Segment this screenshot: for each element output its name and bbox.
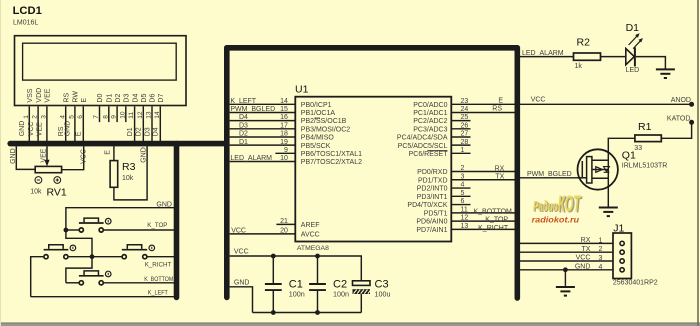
wire K_LEFT to left bus <box>31 296 175 298</box>
wire R1 to Q1 drain <box>608 138 635 150</box>
svg-text:PD3/INT1: PD3/INT1 <box>417 194 448 201</box>
U1 pin 20 (AVCC) wire <box>230 233 296 235</box>
svg-text:K_LEFT: K_LEFT <box>230 98 256 105</box>
LCD pin 10 D3 wire <box>125 106 127 122</box>
svg-text:VSS: VSS <box>27 88 34 102</box>
svg-text:D2: D2 <box>115 94 122 103</box>
svg-text:12: 12 <box>137 111 144 119</box>
svg-text:24: 24 <box>461 106 469 113</box>
svg-text:TX: TX <box>581 246 590 253</box>
svg-text:5: 5 <box>69 115 76 119</box>
capacitor C1 plates <box>265 283 282 285</box>
top horizontal bus bar <box>227 45 518 51</box>
svg-text:D4: D4 <box>153 127 160 136</box>
svg-text:D1: D1 <box>127 127 134 136</box>
U1 pin 2 (PD0/RXD) wire <box>451 171 514 173</box>
LCD pin 6 E wire <box>82 106 84 141</box>
svg-text:PD4/T0/XCK: PD4/T0/XCK <box>407 202 447 209</box>
wire from K_TOP junction down to middle row <box>66 230 92 257</box>
svg-text:2: 2 <box>461 165 465 172</box>
svg-text:U1: U1 <box>295 84 309 96</box>
wire R2 to D1 anode <box>601 56 626 58</box>
svg-text:28: 28 <box>461 139 469 146</box>
wire VCC from bus to J1 pin 3 <box>520 260 613 262</box>
svg-text:K_TOP: K_TOP <box>147 222 167 229</box>
svg-text:VCC: VCC <box>576 255 591 262</box>
svg-text:2: 2 <box>32 115 39 119</box>
ground (Q1 source) <box>599 207 618 209</box>
LCD pin 1 VSS wire <box>28 106 30 141</box>
svg-text:PD6/AIN0: PD6/AIN0 <box>416 219 447 226</box>
microcontroller U1 body <box>295 97 451 242</box>
push button K_RICHT: actuator bar <box>122 249 147 251</box>
wire K_TOP to left bus <box>104 229 175 231</box>
LCD pin 9 D2 wire <box>116 106 118 122</box>
svg-text:RV1: RV1 <box>47 186 67 198</box>
RV1 minus terminal mark <box>35 177 42 184</box>
wire bottom ground rail <box>253 312 362 314</box>
LCD display LCD1 <box>15 36 187 106</box>
svg-text:17: 17 <box>280 122 288 129</box>
LCD pin 12 D5 wire <box>142 106 144 141</box>
resistor R3 body <box>110 161 118 188</box>
capacitor C3 top plate <box>353 281 371 286</box>
wire GND to RV1 left terminal <box>16 146 35 169</box>
svg-text:10: 10 <box>119 111 126 119</box>
svg-text:9: 9 <box>284 147 288 154</box>
U1 pin 23 (PC0/ADC0) wire <box>451 103 514 105</box>
junction node at K_TOP button <box>64 228 69 233</box>
svg-text:RW: RW <box>73 91 80 103</box>
svg-text:VEE: VEE <box>40 148 47 162</box>
svg-text:AVCC: AVCC <box>301 232 320 239</box>
svg-text:PWM_BGLED: PWM_BGLED <box>230 106 275 113</box>
wire Q1 drain-source vertical <box>607 150 609 207</box>
svg-text:K_LEFT: K_LEFT <box>148 289 168 296</box>
svg-text:PD0/RXD: PD0/RXD <box>417 169 447 176</box>
wire VCC rail to C3 <box>230 256 362 281</box>
LED D1 cathode bar <box>634 47 636 66</box>
connector J1 body <box>613 233 631 279</box>
svg-text:PD2/INT0: PD2/INT0 <box>417 186 448 193</box>
svg-text:PD1/TXD: PD1/TXD <box>418 177 448 184</box>
U1 pin 10 (PB7/TOSC2/XTAL2) wire <box>230 160 296 162</box>
U1 pin 19 (PB5/SCK) wire <box>230 144 296 146</box>
svg-text:25: 25 <box>461 114 469 121</box>
middle vertical bus bar <box>224 48 230 298</box>
svg-text:PC5/ADC5/SCL: PC5/ADC5/SCL <box>398 143 448 150</box>
push button K_TOP: operation mark <box>105 218 111 224</box>
svg-text:E: E <box>105 150 112 155</box>
LCD pin 4 RS wire <box>65 106 67 141</box>
svg-text:K_RICHT: K_RICHT <box>145 262 172 269</box>
wire KATOD to R1 <box>661 122 691 138</box>
svg-text:PB0/ICP1: PB0/ICP1 <box>301 102 332 109</box>
LED D1 light arrow 2 <box>633 40 641 48</box>
svg-text:D0: D0 <box>97 94 104 103</box>
LED D1 light arrow 1 <box>629 35 638 45</box>
U1 pin 25 (PC2/ADC2) wire <box>451 120 470 122</box>
svg-text:GND: GND <box>140 147 147 163</box>
svg-text:D4: D4 <box>239 114 248 121</box>
U1 pin 9 (PB6/TOSC1/XTAL1) wire <box>275 152 295 154</box>
svg-text:14: 14 <box>280 98 288 105</box>
svg-text:K_RICHT: K_RICHT <box>478 225 509 232</box>
U1 pin 21 (AREF) stub <box>276 223 295 225</box>
svg-text:11: 11 <box>461 206 468 213</box>
push button K_BOTTOM: right contact <box>99 281 103 285</box>
push button K_LEFT: actuator bar <box>44 249 69 251</box>
wire GND from bus to J1 pin 4 <box>520 269 613 271</box>
svg-text:PWM_BGLED: PWM_BGLED <box>527 171 572 178</box>
svg-text:26: 26 <box>461 122 469 129</box>
svg-text:PC0/ADC0: PC0/ADC0 <box>413 102 447 109</box>
U1 pin 6 (PD4/T0/XCK) wire <box>451 204 470 206</box>
svg-text:21: 21 <box>280 218 288 225</box>
wire from middle junction down to bottom row <box>66 257 92 283</box>
capacitor C2 bottom lead <box>317 291 319 313</box>
left ground bus bar (horizontal) <box>10 141 227 147</box>
U1 pin 1 (PC6/RESET) wire <box>451 152 470 154</box>
wire left lead of K_LEFT button to corner <box>31 257 44 297</box>
svg-text:1: 1 <box>23 115 30 119</box>
svg-text:D6: D6 <box>150 94 157 103</box>
svg-text:12: 12 <box>461 215 469 222</box>
svg-text:GND: GND <box>65 121 72 137</box>
svg-text:D3: D3 <box>124 94 131 103</box>
svg-text:100u: 100u <box>375 289 391 298</box>
push button K_RICHT: actuator cap <box>127 245 141 249</box>
svg-text:LCD1: LCD1 <box>13 5 42 17</box>
LCD pin 14 D7 wire <box>159 106 161 141</box>
svg-text:TX: TX <box>495 173 504 180</box>
LCD pin 2 VDD wire <box>37 106 39 141</box>
J1 pin 3 contact <box>620 259 624 263</box>
capacitor C2 top lead <box>317 256 319 283</box>
svg-text:VDD: VDD <box>36 88 43 103</box>
wire between middle buttons <box>69 256 122 258</box>
U1 pin 12 (PD6/AIN0) wire <box>451 220 514 222</box>
svg-text:VCC: VCC <box>81 149 88 164</box>
wire VEE to RV1 wiper <box>46 146 48 162</box>
push button K_RICHT: operation mark <box>149 245 155 251</box>
svg-text:PB2/SS/OC1B: PB2/SS/OC1B <box>301 118 347 125</box>
U1 pin 3 (PD1/TXD) wire <box>451 179 514 181</box>
svg-text:15: 15 <box>280 106 288 113</box>
svg-text:IRLML5103TR: IRLML5103TR <box>622 163 668 170</box>
svg-text:J1: J1 <box>613 223 624 235</box>
svg-text:ANOD: ANOD <box>671 97 691 104</box>
LCD pin 5 RW wire <box>74 106 76 141</box>
push button K_LEFT: right contact <box>64 255 68 259</box>
svg-text:4: 4 <box>461 182 465 189</box>
U1 pin 24 (PC1/ADC1) wire <box>451 111 514 113</box>
svg-text:6: 6 <box>461 198 465 205</box>
svg-text:R1: R1 <box>638 121 652 133</box>
push button K_BOTTOM: actuator bar <box>79 275 104 277</box>
svg-text:14: 14 <box>154 111 161 119</box>
wire TX from bus to J1 pin 2 <box>520 251 613 253</box>
J1 pin 4 contact <box>620 268 624 272</box>
svg-text:10k: 10k <box>30 189 42 196</box>
junction node C2 bottom <box>315 310 320 315</box>
U1 pin 13 (PD7/AIN1) wire <box>451 228 514 230</box>
wire RX from bus to J1 pin 1 <box>520 242 613 244</box>
svg-text:6: 6 <box>77 115 84 119</box>
svg-text:RX: RX <box>495 166 505 173</box>
svg-text:25630401RP2: 25630401RP2 <box>613 279 658 286</box>
svg-text:1k: 1k <box>575 63 583 70</box>
LCD pin 11 D4 wire <box>134 106 136 141</box>
svg-text:PC1/ADC1: PC1/ADC1 <box>413 110 447 117</box>
svg-text:18: 18 <box>280 131 288 138</box>
wire VCC to RV1 right terminal <box>62 146 84 170</box>
svg-text:10: 10 <box>280 155 288 162</box>
svg-text:PD5/T1: PD5/T1 <box>424 210 448 217</box>
LCD screen area <box>23 43 177 80</box>
svg-text:RS: RS <box>492 105 502 112</box>
svg-text:4: 4 <box>598 264 602 271</box>
svg-text:LED_ALARM: LED_ALARM <box>230 155 272 162</box>
svg-text:KATOD: KATOD <box>667 116 690 123</box>
svg-text:PB5/SCK: PB5/SCK <box>301 143 331 150</box>
RV1 plus terminal mark <box>54 177 61 184</box>
svg-text:PD7/AIN1: PD7/AIN1 <box>416 227 447 234</box>
capacitor C3 bottom lead <box>360 294 362 313</box>
svg-text:D5: D5 <box>141 94 148 103</box>
resistor R1 body <box>635 135 661 142</box>
svg-text:GND: GND <box>19 121 26 137</box>
svg-text:PB6/TOSC1/XTAL1: PB6/TOSC1/XTAL1 <box>301 151 362 158</box>
svg-text:K_BOTTOM: K_BOTTOM <box>474 208 513 215</box>
svg-text:LED: LED <box>626 67 640 74</box>
svg-text:КОТ: КОТ <box>558 190 582 217</box>
resistor R2 body <box>574 53 601 60</box>
svg-text:VEE: VEE <box>37 122 44 136</box>
svg-text:PB1/OC1A: PB1/OC1A <box>301 110 336 117</box>
svg-text:PC4/ADC4/SDA: PC4/ADC4/SDA <box>397 135 448 142</box>
push button K_BOTTOM: actuator cap <box>84 271 98 275</box>
svg-text:VCC: VCC <box>28 122 35 137</box>
svg-text:R3: R3 <box>122 161 136 173</box>
svg-text:16: 16 <box>280 114 288 121</box>
svg-text:VEE: VEE <box>45 88 52 102</box>
wire VCC net (pin23) to ANOD terminal <box>520 103 692 105</box>
U1 pin 16 (PB2/SS/OC1B) wire <box>230 120 296 122</box>
svg-text:13: 13 <box>146 111 153 119</box>
svg-text:LM016L: LM016L <box>13 20 38 27</box>
U1 pin 11 (PD5/T1) wire <box>451 212 514 214</box>
push button K_TOP: left contact <box>79 228 83 232</box>
radiokot watermark <box>532 190 583 224</box>
wire R3 bottom to bus <box>114 146 147 200</box>
svg-text:PC3/ADC3: PC3/ADC3 <box>413 126 447 133</box>
svg-text:PC2/ADC2: PC2/ADC2 <box>413 118 447 125</box>
ground (J1 GND) <box>556 286 575 288</box>
wire PWM_BGLED from bus to Q1 gate <box>520 177 580 179</box>
svg-text:PB4/MISO: PB4/MISO <box>301 135 335 142</box>
U1 pin 17 (PB3/MOSI/OC2) wire <box>230 128 296 130</box>
U1 pin 18 (PB4/MISO) wire <box>230 136 296 138</box>
svg-text:23: 23 <box>461 98 469 105</box>
svg-text:Q1: Q1 <box>622 149 636 161</box>
push button K_LEFT: operation mark <box>70 245 76 251</box>
LCD pin 7 D0 wire <box>99 106 101 122</box>
svg-text:GND: GND <box>234 280 250 287</box>
capacitor C1 top lead <box>272 256 274 283</box>
svg-text:3: 3 <box>598 255 602 262</box>
svg-text:RS: RS <box>63 93 70 103</box>
push button K_TOP: right contact <box>99 228 103 232</box>
svg-text:1: 1 <box>461 147 465 154</box>
svg-text:E: E <box>76 131 83 136</box>
push button K_TOP: actuator bar <box>79 222 104 224</box>
U1 pin 27 (PC4/ADC4/SDA) wire <box>451 136 470 138</box>
LED D1 triangle <box>626 49 635 65</box>
svg-text:100n: 100n <box>289 289 305 298</box>
svg-text:VCC: VCC <box>531 97 546 104</box>
svg-text:9: 9 <box>111 115 118 119</box>
junction node on GND wire <box>563 267 568 272</box>
push button K_LEFT: actuator cap <box>49 245 63 249</box>
push button K_BOTTOM: operation mark <box>105 271 111 277</box>
svg-text:8: 8 <box>102 115 109 119</box>
junction node C2 top <box>315 254 320 259</box>
wire GND from left bus to buttons column <box>66 208 174 230</box>
svg-text:7: 7 <box>93 115 100 119</box>
LCD pin 8 D1 wire <box>108 106 110 122</box>
svg-text:GND: GND <box>10 148 17 164</box>
junction node C1 bottom <box>271 310 276 315</box>
U1 pin 5 (PD3/INT1) wire <box>451 195 470 197</box>
potentiometer RV1 body <box>35 166 61 172</box>
wire left lead of K_BOTTOM button <box>66 282 79 284</box>
wire bus to R3 top <box>113 146 115 160</box>
wire GND to bottom rail <box>230 287 253 313</box>
junction node middle row <box>90 254 95 259</box>
U1 pin 4 (PD2/INT0) wire <box>451 187 470 189</box>
svg-text:K_TOP: K_TOP <box>485 217 508 224</box>
J1 pin 2 contact <box>620 250 624 254</box>
push button K_TOP: actuator cap <box>84 218 98 222</box>
svg-text:3: 3 <box>461 173 465 180</box>
U1 pin 15 (PB1/OC1A) wire <box>230 111 296 113</box>
capacitor C1 bottom lead <box>272 291 274 313</box>
svg-text:19: 19 <box>280 139 288 146</box>
push button K_BOTTOM: left contact <box>79 281 83 285</box>
push button K_RICHT: left contact <box>122 255 126 259</box>
svg-text:VCC: VCC <box>231 227 246 234</box>
svg-text:100n: 100n <box>333 289 349 298</box>
svg-text:4: 4 <box>59 115 66 119</box>
push button K_RICHT: right contact <box>143 255 147 259</box>
svg-text:27: 27 <box>461 131 469 138</box>
LCD pin 13 D6 wire <box>151 106 153 141</box>
svg-text:PC6/RESET: PC6/RESET <box>409 151 449 158</box>
U1 pin 26 (PC3/ADC3) wire <box>451 128 470 130</box>
svg-text:D2: D2 <box>239 131 248 138</box>
svg-text:ATMEGA8: ATMEGA8 <box>297 245 329 252</box>
svg-text:11: 11 <box>128 112 135 119</box>
svg-text:D1: D1 <box>107 94 114 103</box>
svg-text:D7: D7 <box>158 94 165 103</box>
LCD pin 3 VEE wire <box>46 106 48 141</box>
junction node C1 top <box>271 254 276 259</box>
svg-text:2: 2 <box>598 246 602 253</box>
svg-text:D4: D4 <box>132 94 139 103</box>
svg-text:radiokot.ru: radiokot.ru <box>532 215 580 224</box>
svg-text:5: 5 <box>461 190 465 197</box>
capacitor C2 plates <box>309 283 326 285</box>
svg-text:13: 13 <box>461 223 469 230</box>
svg-text:GND: GND <box>575 263 591 270</box>
J1 pin 1 contact <box>620 241 624 245</box>
svg-text:PB3/MOSI/OC2: PB3/MOSI/OC2 <box>301 126 351 133</box>
svg-text:PB7/TOSC2/XTAL2: PB7/TOSC2/XTAL2 <box>301 159 362 166</box>
svg-text:10k: 10k <box>122 175 134 182</box>
svg-text:E: E <box>81 98 88 103</box>
svg-text:RX: RX <box>581 237 591 244</box>
svg-text:20: 20 <box>280 228 288 235</box>
wire LED_ALARM from bus to R2 <box>520 56 574 58</box>
U1 pin 28 (PC5/ADC5/SCL) wire <box>451 144 470 146</box>
svg-text:D1: D1 <box>239 139 248 146</box>
svg-text:K_BOTTOM: K_BOTTOM <box>144 276 173 283</box>
wire D1 cathode to ground <box>636 57 666 69</box>
left bus vertical branch to buttons <box>174 144 180 298</box>
svg-text:D3: D3 <box>144 127 151 136</box>
ground (LED) <box>656 68 675 70</box>
svg-text:VCC: VCC <box>234 249 249 256</box>
wire left lead of K_TOP button <box>66 229 79 231</box>
svg-text:D3: D3 <box>239 122 248 129</box>
svg-text:D1: D1 <box>626 22 640 34</box>
right vertical bus bar <box>514 48 520 298</box>
wire K_BOTTOM to left bus <box>104 282 175 284</box>
svg-text:3: 3 <box>41 115 48 119</box>
svg-text:R2: R2 <box>577 37 591 49</box>
svg-text:E: E <box>498 97 503 104</box>
svg-text:D2: D2 <box>136 127 143 136</box>
svg-text:1: 1 <box>598 237 602 244</box>
RV1 wiper arrow <box>44 160 49 167</box>
push button K_LEFT: left contact <box>44 255 48 259</box>
wire junction down to ground <box>564 270 566 286</box>
wire K_RICHT to left bus <box>148 256 176 258</box>
U1 pin 14 (PB0/ICP1) wire <box>230 103 296 105</box>
svg-text:Радио: Радио <box>533 197 558 214</box>
capacitor C3 bottom plate (hatched) <box>353 289 371 294</box>
transistor Q1 (P-MOSFET) <box>578 149 618 189</box>
svg-text:AREF: AREF <box>301 222 320 229</box>
